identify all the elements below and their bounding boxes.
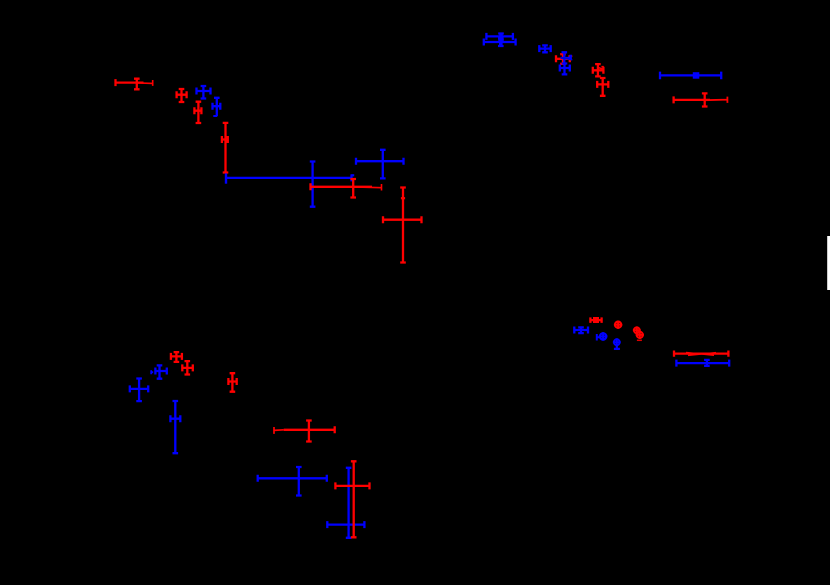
- blue errorbar I: [539, 45, 550, 52]
- red circle-cross U3: [637, 332, 643, 338]
- blue dash D right end: [351, 174, 354, 176]
- blue errorbar P: [170, 401, 180, 453]
- blue thick center H2: [499, 40, 503, 46]
- red errorbar Q2: [182, 361, 193, 374]
- blue errorbar S2: [327, 468, 364, 538]
- red errorbar K1: [593, 64, 604, 76]
- red dash U4: [637, 339, 642, 341]
- red crossing diagonals V: [686, 352, 716, 355]
- red taper A: [138, 80, 153, 86]
- red errorbar Q5: [228, 373, 236, 392]
- red errorbar Q1: [171, 352, 182, 362]
- blue errorbar D: [226, 162, 352, 207]
- red errorbar S1: [335, 461, 369, 537]
- blue errorbar J3: [560, 64, 570, 75]
- red errorbar C: [222, 123, 228, 173]
- red errorbar B1: [177, 89, 187, 102]
- red thin left segment Q with cap: [274, 427, 284, 434]
- red errorbar N: [674, 93, 710, 106]
- blue circle-cross T4: [600, 333, 606, 339]
- red taper F: [353, 184, 381, 191]
- blue errorbar B4: [213, 98, 221, 116]
- white legend box edge: [827, 236, 830, 290]
- red circle-cross T2: [615, 322, 621, 328]
- red square marker T1: [593, 317, 599, 323]
- red taper N: [705, 97, 728, 103]
- blue errorbar T4 left arm: [597, 334, 600, 341]
- red errorbar B3: [194, 102, 201, 123]
- blue errorbar J2: [561, 52, 571, 63]
- blue dash B4 bottom: [213, 115, 217, 117]
- blue errorbar T3: [574, 327, 588, 334]
- blue errorbar B2: [197, 86, 211, 99]
- blue errorbar Mbig: [130, 379, 148, 402]
- blue errorbar E: [356, 150, 404, 179]
- blue errorbar U1 tail: [614, 345, 620, 349]
- red errorbar K2: [597, 78, 608, 96]
- blue dash left of Nb: [151, 370, 153, 374]
- blue errorbar H2: [484, 39, 516, 47]
- red circle-cross U2: [634, 327, 640, 333]
- red small dash G: [401, 197, 405, 199]
- blue errorbar R: [258, 467, 327, 496]
- blue errorbar H1: [486, 33, 513, 40]
- red diagonal K1: [598, 67, 604, 70]
- red dashes J right: [568, 55, 572, 57]
- blue diagonal J2: [561, 58, 573, 60]
- red bar V: [674, 351, 728, 357]
- blue circle-cross U1: [614, 339, 620, 345]
- blue thick center H1: [499, 34, 503, 40]
- blue errorbar M: [660, 72, 721, 80]
- red errorbar J1: [556, 54, 570, 64]
- red errorbar A: [116, 79, 144, 90]
- blue tall left cap D: [225, 173, 227, 183]
- blue right cap J2: [569, 55, 572, 60]
- red errorbar T1: [590, 317, 601, 323]
- red errorbar F: [311, 179, 373, 198]
- blue bar W: [676, 360, 729, 367]
- red errorbar G: [383, 188, 422, 263]
- red errorbar Q: [284, 421, 335, 442]
- blue errorbar Nb: [155, 365, 166, 378]
